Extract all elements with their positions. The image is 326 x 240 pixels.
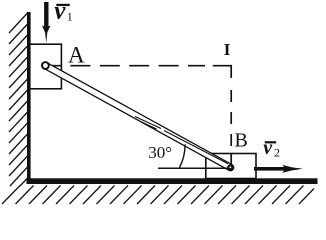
rod AB: [45, 66, 230, 168]
slider block B: [206, 154, 256, 179]
svg-text:B: B: [235, 130, 248, 152]
velocity arrow v1: [42, 2, 51, 43]
horizontal reference line at B: [158, 167, 230, 169]
svg-text:2: 2: [274, 145, 280, 159]
svg-text:I: I: [224, 40, 231, 59]
svg-text:30°: 30°: [148, 143, 172, 162]
velocity arrow v2: [254, 165, 303, 173]
svg-text:A: A: [68, 42, 85, 67]
pin B: [227, 164, 234, 171]
dashed line A to I: [49, 65, 205, 67]
dashed-line tail inside block B: [230, 154, 232, 165]
slider block A: [30, 44, 62, 89]
rod inner shading lines: [135, 117, 228, 164]
label v2: [263, 137, 280, 160]
wall: [27, 12, 31, 184]
label v1: [54, 0, 73, 25]
30 degree arc: [180, 144, 186, 167]
wall hatching: [9, 13, 28, 186]
svg-text:v: v: [54, 0, 66, 25]
floor: [27, 178, 318, 184]
corner dash at I: [213, 66, 231, 78]
pin A: [42, 62, 49, 69]
svg-text:1: 1: [67, 10, 73, 24]
svg-text:v: v: [263, 137, 273, 159]
dashed line I to B: [230, 90, 232, 154]
floor hatching: [2, 186, 314, 205]
